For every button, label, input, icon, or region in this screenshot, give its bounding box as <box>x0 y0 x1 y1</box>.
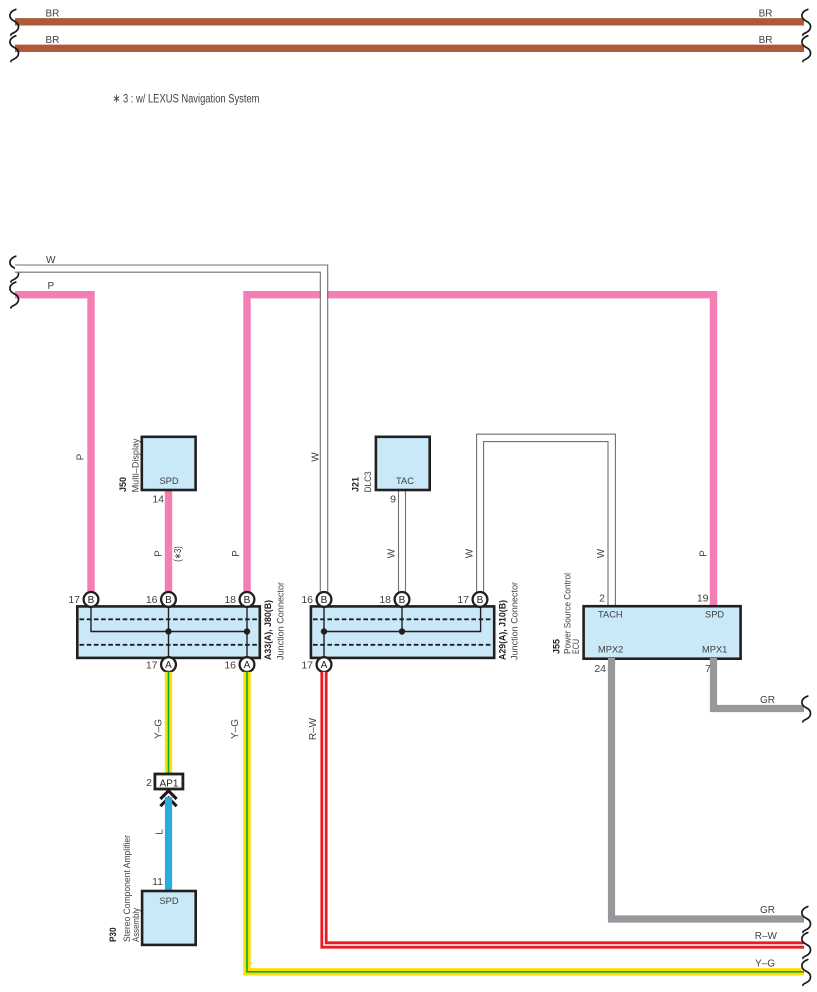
svg-text:P: P <box>698 550 709 557</box>
wire Y-G from A33 pin 17(A) to AP1 <box>165 672 172 775</box>
svg-text:R–W: R–W <box>308 717 319 740</box>
wire GR from J55 MPX1 <box>714 658 805 709</box>
terminator left W <box>10 256 19 282</box>
wire W from left to A29 pin 16(B) <box>15 265 328 592</box>
terminator right GR MPX2 <box>802 907 811 933</box>
svg-text:B: B <box>165 595 172 606</box>
pin 16(B) A33 <box>146 592 176 607</box>
svg-text:2: 2 <box>599 593 605 605</box>
svg-text:J55: J55 <box>552 638 563 654</box>
pin 18(B) A29 <box>379 592 409 607</box>
svg-text:P30: P30 <box>108 928 119 943</box>
svg-text:17: 17 <box>68 594 80 606</box>
component J55 Power Source Control ECU <box>584 606 741 659</box>
pin 17(B) A29 <box>457 592 487 607</box>
svg-text:SPD: SPD <box>159 896 178 906</box>
pin 17(B) A33 <box>68 592 98 607</box>
svg-text:SPD: SPD <box>159 476 178 486</box>
svg-text:2: 2 <box>146 777 152 789</box>
terminator right R-W <box>802 933 811 959</box>
svg-text:Junction Connector: Junction Connector <box>275 582 286 660</box>
svg-text:Y–G: Y–G <box>153 719 164 739</box>
svg-text:BR: BR <box>759 35 773 46</box>
svg-text:J50: J50 <box>118 477 129 492</box>
svg-text:11: 11 <box>152 876 163 888</box>
svg-text:9: 9 <box>390 494 396 506</box>
svg-text:W: W <box>464 548 475 558</box>
svg-text:16: 16 <box>224 659 236 671</box>
wire Y-G from A33 pin 16(A) to bottom right <box>247 672 804 972</box>
svg-text:B: B <box>399 595 406 606</box>
terminator right BR lower <box>802 36 811 62</box>
svg-text:GR: GR <box>760 905 775 916</box>
component P30 Stereo Component Amplifier Assembly <box>142 891 196 945</box>
svg-text:P: P <box>48 281 55 292</box>
svg-text:18: 18 <box>379 594 391 606</box>
wire P from J50 pin 14 to A33 pin 16(B) <box>165 490 172 592</box>
svg-text:18: 18 <box>224 594 236 606</box>
svg-text:DLC3: DLC3 <box>363 471 374 492</box>
component J21 DLC3 <box>376 437 430 490</box>
svg-text:SPD: SPD <box>705 610 724 620</box>
svg-text:14: 14 <box>152 494 164 506</box>
svg-text:A: A <box>244 660 251 671</box>
svg-text:BR: BR <box>759 9 773 20</box>
svg-text:Y–G: Y–G <box>755 959 775 970</box>
wire W from J21 pin 9 to A29 pin 18(B) <box>399 490 406 592</box>
terminator left BR upper <box>10 9 19 35</box>
svg-text:B: B <box>244 595 251 606</box>
svg-text:A: A <box>321 660 328 671</box>
junction connector A29(A), J10(B) <box>311 606 494 658</box>
svg-text:Y–G: Y–G <box>230 719 241 739</box>
svg-text:16: 16 <box>146 594 158 606</box>
svg-text:(∗3): (∗3) <box>173 546 184 562</box>
svg-text:19: 19 <box>697 593 709 605</box>
svg-text:J21: J21 <box>350 476 361 492</box>
svg-text:L: L <box>154 829 165 835</box>
svg-text:∗ 3 : w/ LEXUS Navigation Syst: ∗ 3 : w/ LEXUS Navigation System <box>113 92 260 106</box>
wire W from A29 pin 17(B) to J55 TACH <box>477 434 616 607</box>
svg-text:W: W <box>596 548 607 558</box>
wire GR from J55 MPX2 <box>612 658 805 919</box>
wire R-W from A29 pin 17(A) to bottom right <box>324 672 804 945</box>
component J50 Multi-Display <box>142 437 196 490</box>
wire P from left to A33 pin 17(B) <box>15 295 91 592</box>
svg-text:Junction Connector: Junction Connector <box>510 582 521 660</box>
svg-text:17: 17 <box>301 659 313 671</box>
svg-text:A33(A), J80(B): A33(A), J80(B) <box>263 600 274 660</box>
svg-text:A: A <box>165 660 172 671</box>
terminator right GR MPX1 <box>802 696 811 722</box>
svg-text:17: 17 <box>457 594 469 606</box>
svg-text:BR: BR <box>46 9 60 20</box>
pin 16(A) A33 <box>224 657 254 672</box>
terminator left BR lower <box>10 36 19 62</box>
svg-text:GR: GR <box>760 695 775 706</box>
svg-text:B: B <box>321 595 328 606</box>
pin 18(B) A33 <box>224 592 254 607</box>
svg-text:B: B <box>88 595 95 606</box>
svg-text:Multi–Display: Multi–Display <box>130 438 141 492</box>
svg-text:24: 24 <box>594 663 606 675</box>
svg-text:TACH: TACH <box>598 610 623 620</box>
svg-text:17: 17 <box>146 659 158 671</box>
wire BR upper <box>15 18 804 25</box>
svg-text:BR: BR <box>46 35 60 46</box>
wire BR lower <box>15 45 804 52</box>
pin 17(A) A33 <box>146 657 176 672</box>
svg-text:A29(A), J10(B): A29(A), J10(B) <box>497 600 508 660</box>
svg-text:W: W <box>46 255 56 266</box>
svg-text:16: 16 <box>301 594 313 606</box>
junction connector A33(A), J80(B) <box>77 606 259 658</box>
svg-text:ECU: ECU <box>571 639 582 654</box>
pin 16(B) A29 <box>301 592 331 607</box>
svg-text:P: P <box>231 550 242 557</box>
svg-text:P: P <box>75 453 86 460</box>
chevron shield AP1 <box>160 791 176 806</box>
svg-text:AP1: AP1 <box>160 778 179 789</box>
svg-text:B: B <box>477 595 484 606</box>
svg-text:MPX2: MPX2 <box>598 644 623 654</box>
terminator right Y-G <box>802 960 811 986</box>
svg-text:TAC: TAC <box>396 476 414 486</box>
svg-text:MPX1: MPX1 <box>702 644 727 654</box>
svg-text:W: W <box>386 548 397 558</box>
wire P from A33 pin 18(B) to J55 SPD <box>247 295 714 607</box>
terminator right BR upper <box>802 9 811 35</box>
pin 17(A) A29 <box>301 657 331 672</box>
svg-text:Assembly: Assembly <box>131 908 142 942</box>
wire L from AP1 to P30 <box>165 797 172 891</box>
svg-text:P: P <box>153 550 164 557</box>
svg-text:R–W: R–W <box>755 931 778 942</box>
terminator left P <box>10 282 19 308</box>
connector AP1 <box>155 774 183 789</box>
